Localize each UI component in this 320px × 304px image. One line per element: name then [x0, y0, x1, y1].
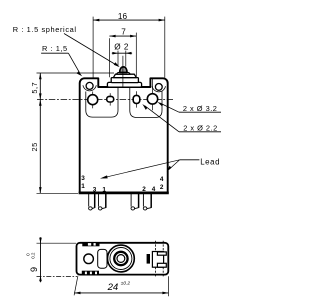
black bar: [147, 254, 150, 264]
plunger centerline: [122, 56, 124, 88]
dimension 16 line: [93, 19, 165, 21]
dimension 5,7 line: [39, 73, 41, 100]
dimension 25 arrows: [39, 100, 42, 106]
bottom view outline: [77, 243, 169, 275]
dimension 24 extension right: [167, 276, 169, 296]
centerline slot left-center: [109, 93, 111, 105]
diameter 2 extension lines: [117, 51, 119, 67]
centerline slot right-center: [136, 91, 138, 107]
svg-text:9: 9: [29, 267, 39, 272]
svg-text:4: 4: [152, 186, 156, 193]
dimension 7 line: [109, 35, 136, 37]
holes row centerline: [37, 99, 173, 101]
dimension 24 extension left slanted: [74, 276, 78, 296]
plunger spherical dome: [120, 67, 127, 73]
bottom view boss: [98, 249, 107, 268]
svg-text:1: 1: [102, 186, 106, 193]
roller ring 3 thick: [114, 252, 127, 265]
svg-text:5,7: 5,7: [30, 82, 39, 94]
dimension 25 line: [39, 100, 41, 194]
dimension 7 extension lines: [108, 38, 110, 77]
dimension 16 extension lines: [92, 17, 94, 78]
plunger trapezoid step: [113, 74, 136, 77]
dimension 16 arrows: [93, 19, 99, 22]
left top screw hole: [86, 82, 93, 89]
svg-text:±0.2: ±0.2: [121, 281, 131, 287]
leader to corner radius: [68, 53, 79, 73]
svg-text:3: 3: [93, 186, 97, 193]
pin terminal 2: [131, 194, 139, 210]
big mounting hole right: [147, 94, 157, 104]
connector main: [152, 252, 163, 268]
Lead leader to right pins: [169, 160, 180, 170]
dimension 9 extension bottom: [37, 275, 78, 277]
leader to spherical dome: [64, 34, 117, 66]
svg-text:Lead: Lead: [200, 158, 220, 167]
svg-text:25: 25: [30, 142, 39, 151]
dimension 24 arrows: [74, 292, 80, 295]
bottom view left hole: [84, 254, 94, 264]
underline leader 2.2: [179, 131, 221, 133]
dashed line 2: [162, 241, 164, 250]
right top screw hole: [155, 84, 162, 91]
slot hole left-center: [107, 96, 114, 102]
pin terminal 4: [143, 194, 151, 210]
roller inner circle: [117, 255, 125, 263]
plunger collar: [117, 72, 131, 74]
svg-text:2 x Ø 2.2: 2 x Ø 2.2: [183, 124, 218, 133]
connector tab top: [157, 252, 166, 255]
dimension 9 line: [40, 237, 42, 282]
dimension 24 line: [74, 292, 168, 294]
svg-text:R : 1,5: R : 1,5: [42, 44, 68, 53]
slot hole right-center: [133, 95, 140, 103]
right inner pocket thin contour: [130, 88, 162, 118]
plunger base platform: [107, 82, 141, 87]
pin terminal 3: [98, 194, 105, 210]
Lead leader to left pins: [103, 160, 180, 178]
boss arc around left top screw hole: [83, 85, 96, 91]
svg-text:2: 2: [160, 184, 164, 191]
svg-text:2 x Ø 3.2: 2 x Ø 3.2: [183, 104, 218, 113]
clip tab bottom-left: [82, 271, 99, 275]
svg-text:2: 2: [142, 186, 146, 193]
pin terminal 1: [89, 194, 95, 210]
dimension 25 extension line bottom: [37, 192, 79, 194]
roller outer circle: [108, 245, 135, 272]
left inner pocket thin contour: [86, 88, 118, 118]
diameter 2 dimension line: [112, 52, 132, 54]
dashed line 1: [155, 241, 157, 250]
switch body outline (top view): [80, 78, 168, 192]
svg-text:4: 4: [160, 176, 164, 183]
underline leader 3.2: [179, 111, 221, 113]
svg-text:3: 3: [81, 175, 85, 182]
dimension 5,7 arrows: [39, 73, 42, 79]
big mounting hole left: [88, 95, 98, 105]
svg-text:24: 24: [107, 282, 119, 293]
plunger ledge: [111, 78, 138, 83]
dimension 5,7 extension line top: [37, 72, 115, 74]
clip tab top-left: [82, 242, 99, 246]
label R 1,5 underline: [41, 52, 68, 54]
svg-text:0.2: 0.2: [31, 252, 36, 259]
dimension 7 arrows: [109, 35, 115, 38]
diameter 2 arrows outside: [112, 52, 118, 55]
boss arc around right top screw hole: [152, 86, 165, 92]
svg-text:Ø 2: Ø 2: [114, 42, 129, 51]
svg-text:R : 1.5 spherical: R : 1.5 spherical: [13, 25, 77, 34]
svg-text:7: 7: [121, 28, 126, 37]
dimension 9 extension top: [37, 242, 77, 244]
Lead leader horizontal: [180, 159, 200, 161]
connector tab bottom: [157, 263, 166, 267]
dimension 9 arrows outside: [39, 238, 42, 244]
body bottom edge thick: [79, 192, 169, 195]
centerline big hole right: [152, 79, 154, 111]
centerline big hole left: [92, 92, 94, 109]
svg-text:16: 16: [118, 12, 128, 21]
svg-text:1: 1: [81, 183, 85, 190]
roller ring 2: [110, 248, 132, 270]
